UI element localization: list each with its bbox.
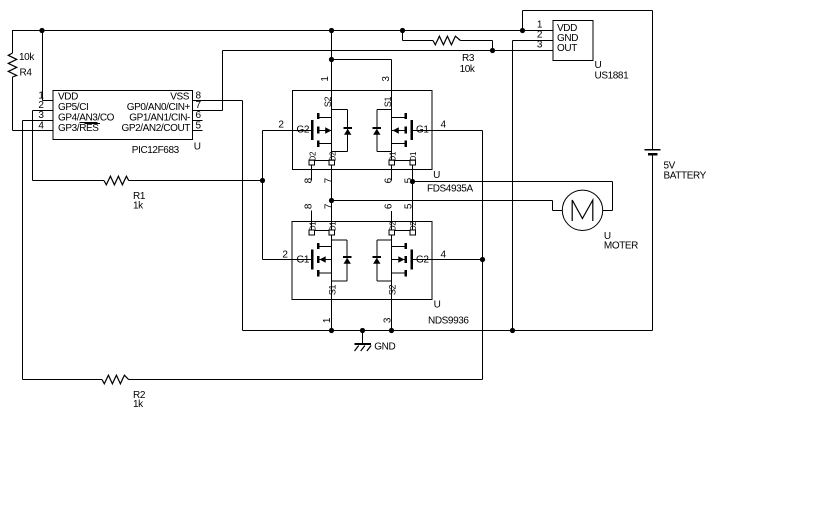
svg-text:4: 4 [441, 120, 447, 131]
svg-text:G2: G2 [416, 255, 429, 266]
svg-text:R4: R4 [20, 68, 33, 79]
svg-text:S1: S1 [328, 285, 338, 296]
svg-text:U: U [194, 142, 201, 153]
NDS pad pair connector left [312, 230, 332, 232]
svg-text:GP5/CI: GP5/CI [58, 102, 88, 113]
svg-text:GP1/AN1/CIN-: GP1/AN1/CIN- [129, 113, 190, 124]
svg-text:2: 2 [282, 250, 288, 261]
svg-text:VDD: VDD [58, 92, 78, 103]
FDS pad pair connector left [312, 160, 332, 162]
node R1 to gate column [260, 178, 265, 183]
transistor array U NDS9936 body [292, 222, 432, 300]
svg-text:GP3/RES: GP3/RES [58, 123, 99, 134]
wire US1881 GND to GND rail [513, 40, 554, 42]
node US1881 GND at rail [510, 328, 515, 333]
svg-text:S1: S1 [383, 97, 393, 108]
svg-text:D1: D1 [409, 151, 418, 161]
wire motor left (OUT1) y=200 [329, 198, 334, 203]
svg-text:5: 5 [404, 203, 415, 209]
svg-text:10k: 10k [460, 64, 476, 75]
node R3 top [400, 28, 405, 33]
svg-text:BATTERY: BATTERY [664, 171, 707, 182]
resistor R4 [12, 31, 14, 54]
svg-text:1k: 1k [133, 201, 144, 212]
motor M glyph [572, 200, 593, 221]
node FDS source branch [329, 57, 334, 62]
svg-text:R3: R3 [462, 53, 475, 64]
IC U PIC12F683 body [53, 91, 193, 140]
svg-text:PIC12F683: PIC12F683 [132, 145, 180, 156]
pin 5 stub [193, 130, 203, 132]
svg-text:FDS4935A: FDS4935A [427, 184, 473, 195]
wire motor right (OUT2) y=181 [410, 179, 415, 184]
svg-text:8: 8 [304, 177, 315, 183]
FDS pad pin6 [389, 160, 395, 165]
vertical column pin8 x=312 [311, 165, 313, 181]
node VDD rail to battery [520, 28, 525, 33]
wire FDS sources to VDD rail [329, 28, 334, 33]
svg-text:D2: D2 [328, 151, 337, 161]
svg-text:D1: D1 [308, 221, 317, 231]
wire battery positive top [522, 11, 524, 31]
transistor FDS4935A Q-G2 (left P-FET) [293, 130, 312, 132]
svg-text:GP2/AN2/COUT: GP2/AN2/COUT [121, 123, 190, 134]
transistor NDS9936 Q-G1 (left N-FET) [292, 259, 311, 261]
vertical column pin1/7 x=332 [331, 60, 333, 161]
svg-text:D2: D2 [388, 221, 397, 231]
svg-text:D1: D1 [388, 151, 397, 161]
resistor R3 [402, 31, 404, 41]
ground symbol [362, 331, 364, 344]
node VDD to PIC pin1 [39, 28, 44, 33]
NDS pin1 to GND [329, 328, 334, 333]
svg-text:U: U [433, 170, 440, 181]
NDS pad pair connector right [392, 230, 413, 232]
svg-text:U: U [434, 300, 441, 311]
svg-text:VSS: VSS [170, 92, 190, 103]
svg-text:NDS9936: NDS9936 [428, 316, 469, 327]
wire VDD top rail y=30 [12, 30, 553, 32]
svg-text:G1: G1 [297, 255, 310, 266]
svg-text:1: 1 [322, 317, 333, 323]
node NDS9936 G2 gate junction [480, 257, 485, 262]
vertical column pin3/6 x=392 [391, 91, 393, 161]
svg-text:D2: D2 [409, 221, 418, 231]
svg-text:7: 7 [324, 177, 335, 183]
wire PIC pin7 to US1881 OUT [193, 110, 223, 112]
svg-text:D2: D2 [308, 151, 317, 161]
svg-text:3: 3 [381, 76, 392, 82]
pin 6 stub [193, 120, 203, 122]
wire gates right column (FDS G1 / NDS G2) [432, 130, 483, 132]
svg-text:4: 4 [441, 250, 447, 261]
svg-text:6: 6 [384, 177, 395, 183]
NDS pad pin8 [309, 230, 315, 235]
FDS pad pin7 [329, 160, 335, 165]
FDS pin6 stub [391, 165, 393, 181]
motor U MOTER [562, 190, 602, 230]
svg-text:5: 5 [196, 120, 202, 131]
transistor FDS4935A Q-G1 (right P-FET) [413, 130, 432, 132]
overline AN3 [79, 121, 97, 123]
battery BT 5V [645, 149, 661, 151]
svg-text:5: 5 [404, 177, 415, 183]
svg-text:U: U [595, 60, 602, 71]
node GND symbol junction [360, 328, 365, 333]
vertical column pin5 x=413 [412, 165, 414, 231]
svg-text:4: 4 [38, 120, 44, 131]
wire PIC VSS pin8 to GND rail [193, 100, 243, 102]
wire gates left column (FDS G2 / NDS G1) [262, 131, 264, 260]
FDS pad pair connector right [392, 160, 413, 162]
svg-text:GND: GND [374, 341, 395, 352]
svg-text:1: 1 [320, 76, 331, 82]
svg-text:6: 6 [384, 203, 395, 209]
wire PIC pin2 to R1 [33, 110, 54, 112]
svg-text:GP0/AN0/CIN+: GP0/AN0/CIN+ [127, 102, 191, 113]
wire GND rail y=330 [243, 330, 653, 332]
resistor R2 [23, 379, 103, 381]
svg-text:G2: G2 [297, 125, 310, 136]
svg-text:US1881: US1881 [595, 71, 630, 82]
svg-text:S2: S2 [388, 285, 398, 296]
svg-text:8: 8 [304, 203, 315, 209]
wire battery negative to GND rail [652, 155, 654, 330]
transistor array U FDS4935A body [293, 91, 433, 170]
wire OUT net y=50 [223, 50, 554, 52]
svg-text:3: 3 [383, 317, 394, 323]
svg-text:MOTER: MOTER [604, 241, 638, 252]
wire PIC pin4 [13, 130, 54, 132]
FDS pad pin8 [309, 160, 315, 165]
svg-text:S2: S2 [323, 97, 333, 108]
overline RES [85, 123, 101, 125]
IC U US1881 body [553, 21, 593, 61]
NDS pad pin7 [329, 230, 335, 235]
svg-text:3: 3 [537, 40, 543, 51]
resistor R1 [33, 180, 105, 182]
transistor NDS9936 Q-G2 (right N-FET) [413, 259, 432, 261]
svg-text:D1: D1 [328, 221, 337, 231]
svg-text:GP4/AN3/CO: GP4/AN3/CO [58, 113, 115, 124]
svg-text:OUT: OUT [557, 43, 577, 54]
svg-text:10k: 10k [19, 52, 35, 63]
svg-text:2: 2 [278, 120, 284, 131]
NDS pad pin6 [389, 230, 395, 235]
svg-text:G1: G1 [416, 125, 429, 136]
NDS pad pin5 [410, 230, 416, 235]
svg-text:7: 7 [324, 203, 335, 209]
wire PIC pin3 to R2 [23, 120, 54, 122]
svg-text:1k: 1k [133, 399, 144, 410]
FDS pad pin5 [410, 160, 416, 165]
node R3 bottom to OUT [490, 48, 495, 53]
wire PIC pin1 [42, 31, 44, 101]
NDS pin3 to GND [389, 328, 394, 333]
